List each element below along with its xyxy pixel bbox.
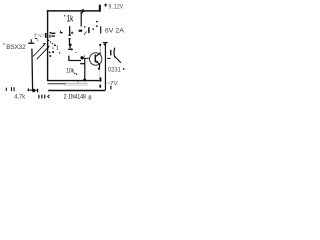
wire feedback drop <box>84 59 86 80</box>
node junction dot between C1 C2 <box>69 44 72 47</box>
faint resistor box lower band <box>48 83 67 85</box>
svg-text:0231: 0231 <box>108 67 122 73</box>
capacitor plates bottom left branch <box>28 88 37 92</box>
node dot B <box>104 44 106 46</box>
svg-text:~7V: ~7V <box>106 81 118 87</box>
capacitor C4 polarized right <box>107 48 121 63</box>
capacitor C3 far bottom left <box>6 87 14 91</box>
svg-text:8: 8 <box>88 95 91 101</box>
label 1N4 marks <box>38 95 45 99</box>
phototransistor T1 body marks <box>45 32 60 57</box>
wire lower horizontal to output <box>47 80 100 82</box>
transistor T2 emitter with arrow <box>96 61 100 65</box>
light arrow 2 into T1 <box>37 46 50 59</box>
wire mid drop from rail dot <box>80 12 82 27</box>
left rail input branch terminal T symbol <box>28 34 44 43</box>
wire segment right upper <box>100 26 102 33</box>
node junction dot bottom left <box>32 89 35 92</box>
resistor R1 mark <box>79 30 83 32</box>
transistor T2 collector <box>96 53 101 57</box>
label +9..12V <box>104 3 123 10</box>
pin bar mark <box>88 27 90 33</box>
svg-text:4,7k: 4,7k <box>14 93 26 100</box>
node junction dot base line <box>80 56 83 59</box>
svg-text:10k: 10k <box>66 68 74 75</box>
label T1 type <box>4 43 27 51</box>
pin tick mark <box>92 28 94 30</box>
wire collector up faint <box>99 46 101 53</box>
capacitor C2 electrolytic <box>68 46 73 61</box>
label 1k <box>65 14 74 24</box>
terminal output bar 1 <box>100 77 102 81</box>
svg-text:BSX32: BSX32 <box>6 44 26 51</box>
light arrow 1 into T1 <box>33 43 46 57</box>
label diodes 2-1N4148 <box>64 93 92 101</box>
dashed node dots <box>96 21 98 23</box>
svg-text:6V 2A: 6V 2A <box>105 28 124 35</box>
wire left rail <box>31 49 34 90</box>
node junction dot lower horizontal <box>83 79 86 82</box>
svg-text:9..12V: 9..12V <box>109 3 124 10</box>
node junction dot on top rail <box>82 9 85 12</box>
svg-text:1k: 1k <box>67 14 74 24</box>
terminal + supply <box>99 5 101 12</box>
wire right vertical rail <box>104 43 106 91</box>
tick below label <box>110 86 112 90</box>
wire top supply rail <box>47 10 99 12</box>
transistor T2 circle <box>90 53 102 65</box>
wire bottom rail <box>48 90 105 92</box>
wire base line to T2 <box>69 60 81 62</box>
svg-text:1: 1 <box>56 45 59 51</box>
terminal output bar 2 <box>99 85 101 88</box>
label 10k <box>66 68 77 75</box>
node collector dot A <box>99 44 101 46</box>
transistor T2 base bar <box>94 55 96 63</box>
svg-text:2·1N4148: 2·1N4148 <box>64 93 86 100</box>
wire left drop from rail <box>47 10 49 81</box>
capacitor C1 electrolytic <box>60 26 73 44</box>
wire emitter down <box>99 65 101 69</box>
label 0231 <box>108 67 125 73</box>
